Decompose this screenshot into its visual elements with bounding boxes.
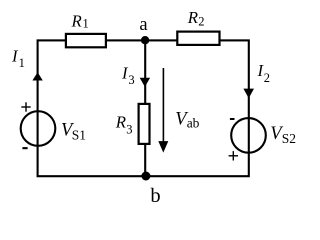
node b junction dot [141,172,150,181]
svg-text:3: 3 [128,73,134,87]
VS1 plus polarity [21,106,30,108]
voltage arrow Vab (down) [162,68,164,144]
resistor R1 [66,34,106,47]
svg-text:ab: ab [187,116,200,131]
VS2 minus polarity [230,118,235,120]
resistor R2 [177,32,219,45]
svg-text:2: 2 [264,71,270,85]
svg-text:2: 2 [198,15,204,29]
resistor R3 [139,104,150,144]
svg-text:b: b [150,185,160,207]
current arrow I1 (up) [32,72,42,80]
VS1 minus polarity [22,147,27,149]
current arrow I2 (down) [243,89,254,99]
voltage source VS2 [231,118,266,153]
svg-text:1: 1 [19,56,25,70]
voltage source VS1 [21,111,56,146]
svg-text:3: 3 [126,122,132,136]
svg-text:R: R [187,8,198,27]
svg-text:1: 1 [83,17,89,31]
wire middle branch a-b [144,40,146,176]
node a junction dot [141,36,149,44]
svg-text:a: a [139,15,147,35]
current arrow I3 (down) [140,78,150,87]
VS2 plus polarity [229,155,238,157]
svg-text:R: R [71,11,82,30]
wire outer loop (top/left/bottom/right) [38,40,249,176]
svg-text:S2: S2 [282,131,296,146]
svg-text:R: R [115,113,126,132]
svg-text:S1: S1 [72,128,86,143]
